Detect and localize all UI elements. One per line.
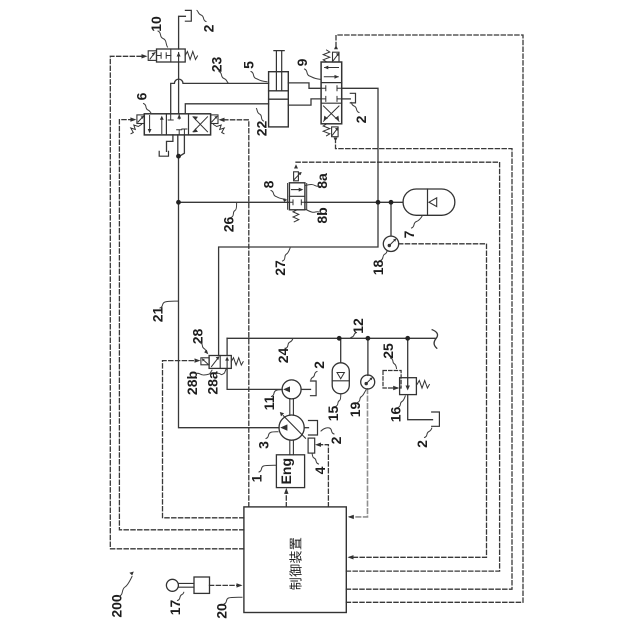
node: junction of supply line 26 and line 21: [176, 200, 181, 205]
wire 22: valve 6 port B to cylinder head side: [185, 104, 268, 114]
label 24 with leader: [275, 339, 293, 363]
label 25 with leader: [380, 343, 397, 368]
engine 1: [276, 455, 304, 488]
wire: cylinder head side to valve 9: [288, 99, 321, 105]
svg-text:11: 11: [261, 395, 277, 410]
label 27 with leader: [272, 248, 290, 276]
svg-text:19: 19: [347, 402, 363, 418]
svg-text:9: 9: [294, 58, 310, 66]
label 19 with leader: [347, 390, 366, 417]
wire: valve 10 to valve 6 center port: [178, 62, 180, 114]
wire: dashed signal control unit to pump regulator 4: [318, 445, 329, 507]
svg-text:8b: 8b: [314, 207, 330, 223]
pressure sensor 19: [361, 375, 375, 389]
arrowhead: signal into valve 6 left solenoid: [130, 117, 136, 121]
wire: dashed signal control unit to valve 10 solenoid via left side: [110, 56, 244, 549]
tank symbol at relief valve 16: [432, 412, 440, 426]
wire 12: pressure line with wavy break end: [227, 330, 437, 349]
label 12 with leader: [350, 318, 366, 338]
pilot control box 25: [383, 371, 401, 389]
valve 6 main directional control valve 4/3: [131, 114, 224, 135]
svg-text:23: 23: [209, 57, 225, 73]
tank symbol above valve 10: [185, 10, 191, 21]
tank symbol at pump 11: [311, 381, 317, 396]
label 8b with leader: [306, 207, 330, 223]
svg-text:5: 5: [241, 61, 257, 69]
wire: cylinder rod side to valve 9: [288, 83, 321, 88]
arrowhead: operation signal into control unit: [237, 583, 243, 587]
label 9 with leader: [294, 58, 321, 79]
wire: dashed signal control unit to valve 9 bottom solenoid via right loop: [336, 142, 513, 590]
wire 27: supply node down to valve 28: [219, 202, 378, 355]
valve 9 regeneration directional valve 4/3: [321, 45, 342, 142]
label 21 with leader: [150, 301, 178, 322]
svg-text:2: 2: [353, 115, 369, 123]
wire: dashed signal control unit to valve 9 top solenoid via right loop: [336, 35, 523, 602]
svg-text:10: 10: [148, 16, 164, 32]
wire: valve 28 to pump 11: [227, 368, 282, 389]
svg-text:12: 12: [350, 318, 366, 334]
label 28a with leader: [205, 369, 227, 394]
wire: junction to supply node: [178, 156, 180, 202]
wire: tank line above valve 10: [179, 16, 186, 49]
svg-text:16: 16: [388, 407, 404, 423]
label 3 with leader: [256, 432, 279, 449]
label 2 tank of pump 11: [311, 361, 327, 380]
node: junction supply line and sensor 18 tap: [389, 200, 394, 205]
node: junction line 12 and sensor 19: [366, 336, 371, 341]
svg-text:21: 21: [150, 307, 166, 323]
svg-text:28a: 28a: [205, 371, 221, 395]
node: junction supply line and valve 9 branch: [376, 200, 381, 205]
label 11 with leader: [261, 390, 283, 411]
svg-text:15: 15: [325, 406, 341, 422]
svg-text:24: 24: [275, 348, 291, 364]
tank symbol at valve 9: [350, 93, 355, 103]
cylinder 5 with piston and rod: [269, 51, 289, 127]
accumulator 15: [332, 363, 349, 394]
wire 23: valve 6 port A to cylinder rod side: [171, 79, 269, 114]
label 20 with leader: [214, 597, 243, 619]
node: junction of valve 6 return lines: [176, 154, 181, 159]
svg-text:200: 200: [109, 594, 125, 618]
wire: dashed signal control unit to valve 28 solenoid via left side: [163, 361, 244, 518]
wire: dashed signal pressure sensor 18 to control unit via right loop: [350, 244, 487, 558]
arrowhead: sensor 18 signal into control unit: [348, 555, 354, 559]
tank symbol at pump 3: [309, 421, 318, 436]
svg-text:2: 2: [328, 436, 344, 444]
label 2 tank of valve 9: [351, 102, 369, 123]
label 28 with leader arrow: [190, 329, 209, 355]
pump regulator 4: [308, 438, 315, 453]
wire: pump 3 outlet to tank: [304, 427, 308, 429]
svg-text:2: 2: [201, 24, 217, 32]
svg-text:3: 3: [256, 441, 272, 449]
label 2 tank of pump 3: [321, 428, 344, 445]
arrowhead: signal into valve 28 solenoid: [195, 358, 201, 362]
svg-text:制御装置: 制御装置: [289, 537, 304, 591]
label 5 with leader: [241, 61, 268, 82]
shaft: pump 11 to pump 3: [290, 399, 294, 416]
svg-text:2: 2: [414, 440, 430, 448]
svg-text:28: 28: [190, 329, 206, 345]
wire: valve 6 tank port to tank symbol: [167, 135, 173, 151]
svg-text:26: 26: [221, 217, 237, 233]
shaft: pump 3 to engine: [290, 440, 294, 455]
wire: valve 6 return ports to junction node: [178, 135, 185, 156]
label 18 with leader: [370, 251, 387, 276]
wire 21: supply node down to pump 3: [179, 202, 280, 427]
svg-text:22: 22: [254, 121, 270, 137]
arrowhead: pilot signal into valve 16: [393, 386, 399, 390]
operation device 17: [166, 577, 209, 593]
label 15 with leader: [325, 394, 341, 421]
label 10 with leader: [148, 16, 168, 47]
svg-text:18: 18: [370, 260, 386, 276]
wire 26: supply line to valve 8: [179, 201, 290, 203]
wire: relief valve 16 to tank: [408, 395, 433, 420]
label 17 with leader: [167, 592, 184, 615]
svg-text:7: 7: [401, 230, 417, 238]
label 8 with leader arrow: [261, 180, 288, 202]
svg-text:28b: 28b: [184, 371, 200, 395]
control unit 20: [244, 507, 346, 613]
arrowhead: signal into valve 10 solenoid: [142, 54, 148, 58]
wire 24: valve 28 up to line 12: [226, 338, 228, 355]
label 8a with leader: [306, 173, 331, 189]
wire: pressure sensor 19 tap: [367, 338, 369, 375]
arrowhead: signal into engine: [284, 488, 288, 494]
wire: dashed signal control unit to engine: [285, 492, 287, 507]
wire: dashed signal control unit to valve 8 solenoid via right loop: [296, 162, 500, 571]
label 4 with leader: [312, 454, 328, 474]
wire: valve 9 port to supply line: [342, 88, 378, 202]
svg-text:20: 20: [214, 603, 230, 619]
svg-text:27: 27: [272, 260, 288, 276]
label 2 tank of valve 16: [414, 428, 432, 448]
svg-text:2: 2: [311, 361, 327, 369]
pump 11 fixed displacement pump: [282, 380, 301, 399]
relief valve 16: [400, 378, 430, 395]
label 7 with leader: [401, 216, 423, 239]
pump 3 variable displacement pump: [279, 412, 306, 440]
wire: accumulator 15 tap: [340, 338, 342, 363]
svg-text:Eng: Eng: [278, 458, 294, 484]
wire: dashed signal control unit to valve 6 left solenoid via left side: [119, 120, 243, 530]
wire: dashed signal operation device 17 to control unit: [210, 584, 241, 586]
label 22 with leader: [254, 109, 270, 137]
svg-text:25: 25: [380, 343, 396, 359]
svg-text:17: 17: [167, 600, 183, 616]
label 200 with leader arrow: [109, 572, 134, 618]
valve 8 solenoid relief valve: [288, 164, 307, 222]
wire: line 12 down to relief valve 16: [407, 338, 409, 377]
valve 10 solenoid-operated 2/2 valve: [148, 49, 197, 62]
node: junction line 12 and relief valve 16: [405, 336, 410, 341]
svg-text:6: 6: [134, 92, 150, 100]
node: junction line 12 and accumulator 15: [337, 336, 342, 341]
svg-text:4: 4: [312, 466, 328, 474]
svg-text:1: 1: [249, 474, 265, 482]
svg-text:8: 8: [261, 180, 277, 188]
label 1 with leader: [249, 465, 277, 482]
wire: valve 9 tank port: [342, 98, 351, 100]
wire: pressure sensor 18 tap line: [390, 202, 392, 235]
arrowhead: signal into regulator 4: [315, 443, 321, 447]
wire: dashed signal control unit to valve 6 right solenoid: [223, 120, 249, 507]
wire: valve 8 to accumulator 7: [305, 201, 403, 203]
pressure sensor 18: [383, 236, 398, 251]
arrowhead: signal into valve 6 right solenoid: [219, 118, 225, 122]
accumulator 7: [403, 189, 455, 215]
label 26 with leader: [221, 204, 237, 233]
arrowhead: sensor 19 signal into control unit: [348, 515, 354, 519]
wire: dashed signal pressure sensor 19 to control unit: [350, 389, 368, 517]
wire: pump 11 outlet to tank: [301, 388, 310, 390]
label 6 with leader: [134, 92, 151, 112]
label 28b with leader: [184, 370, 212, 395]
label 23 with leader: [209, 57, 229, 83]
label 16 with leader: [388, 396, 406, 422]
label 2 tank of valve 10: [197, 11, 217, 33]
valve 28 solenoid 2-position valve: [201, 356, 243, 369]
tank symbol below valve 6: [159, 151, 168, 156]
